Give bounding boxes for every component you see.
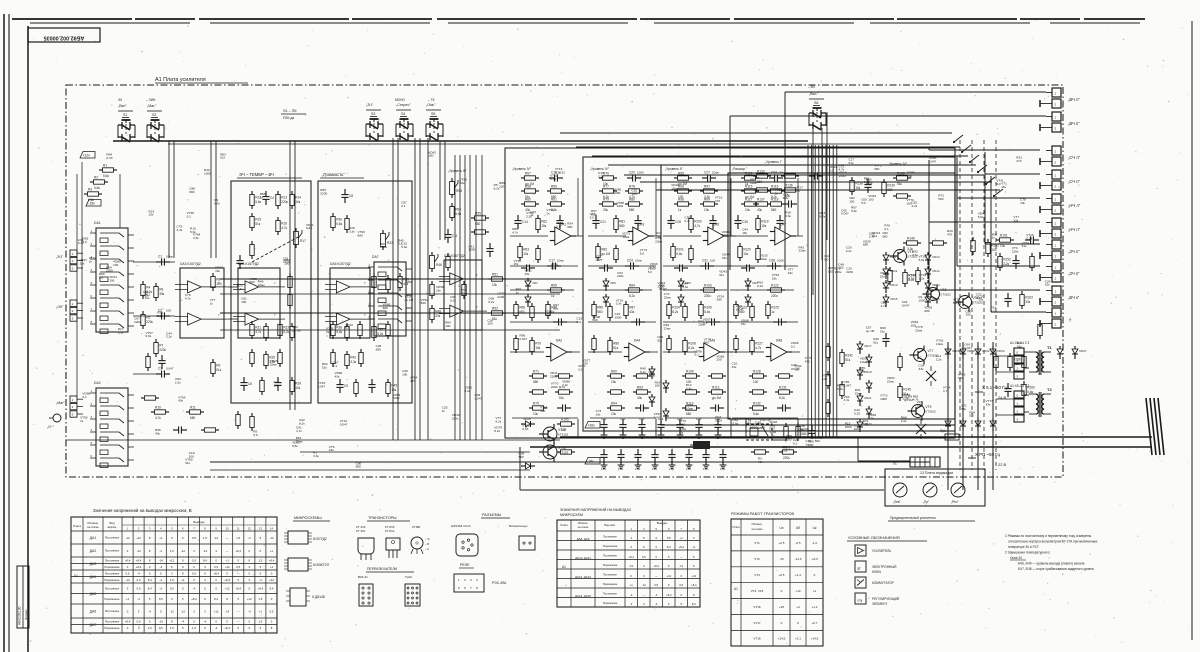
svg-text:R3: R3 xyxy=(88,187,92,191)
svg-text:5,0: 5,0 xyxy=(83,240,88,244)
svg-text:до 1М: до 1М xyxy=(292,329,301,333)
wire xfmr links xyxy=(996,352,1029,415)
svg-text:ЭЧ – ТЕМБР – БЧ: ЭЧ – ТЕМБР – БЧ xyxy=(239,172,274,177)
capacitor C23 xyxy=(599,264,613,271)
svg-text:+12: +12 xyxy=(214,609,219,613)
svg-text:+8,4: +8,4 xyxy=(269,559,275,563)
svg-text:R103: R103 xyxy=(704,283,712,287)
svg-text:-4: -4 xyxy=(259,578,262,582)
svg-text:15к: 15к xyxy=(535,346,541,350)
svg-text:VD10: VD10 xyxy=(932,255,940,259)
svg-text:ДА4: ДА4 xyxy=(90,575,97,579)
svg-text:22мк: 22мк xyxy=(664,326,672,330)
svg-text:К1: К1 xyxy=(748,418,752,422)
wires pins to selector xyxy=(730,92,1046,312)
capacitor C18 xyxy=(553,318,567,325)
svg-text:0,5: 0,5 xyxy=(654,583,658,587)
svg-text:5,6к: 5,6к xyxy=(94,186,100,190)
diode VD24 xyxy=(649,366,655,379)
svg-text:+4: +4 xyxy=(796,605,800,609)
svg-text:2 Завышении температурного:: 2 Завышении температурного: xyxy=(1005,551,1050,555)
svg-text:3,3к: 3,3к xyxy=(350,360,356,364)
diode VD18 xyxy=(866,354,872,367)
svg-text:C34: C34 xyxy=(771,171,777,175)
capacitor C27 xyxy=(702,171,719,182)
resistor R140 xyxy=(893,171,911,186)
svg-text:ДА1: ДА1 xyxy=(90,536,97,540)
svg-text:8,2к: 8,2к xyxy=(450,299,456,303)
ground xyxy=(686,462,693,468)
board outline A1 xyxy=(66,85,1063,477)
svg-text:560: 560 xyxy=(882,235,887,239)
resistor R146 xyxy=(888,267,892,285)
svg-text:АБ92.002.00: АБ92.002.00 xyxy=(18,606,22,625)
svg-text:R96: R96 xyxy=(678,184,684,188)
svg-text:5,6к: 5,6к xyxy=(851,209,857,213)
resistor R60 xyxy=(521,197,539,212)
svg-text:2200: 2200 xyxy=(839,174,846,178)
svg-text:3,3к: 3,3к xyxy=(869,235,875,239)
svg-text:0,1: 0,1 xyxy=(695,353,700,357)
svg-text:10к: 10к xyxy=(745,208,751,212)
rectifier verticals xyxy=(948,342,993,490)
channel 1 wires xyxy=(510,178,583,437)
capacitor C25 xyxy=(631,318,645,325)
capacitor C55 xyxy=(714,419,721,433)
selector dashed links xyxy=(960,140,996,470)
resistor R10 xyxy=(151,405,169,420)
svg-text:R98: R98 xyxy=(678,197,684,201)
svg-text:РАЗЪЕМЫ: РАЗЪЕМЫ xyxy=(482,513,502,517)
switch S4 xyxy=(396,103,413,141)
resistor R164 xyxy=(1038,321,1042,339)
capacitor C37 xyxy=(741,264,755,271)
svg-text:+8,4: +8,4 xyxy=(224,626,230,630)
svg-text:51к: 51к xyxy=(185,461,190,465)
resistor R18 xyxy=(250,241,254,259)
svg-text:Постоянное: Постоянное xyxy=(603,536,617,539)
resistor R30 xyxy=(331,213,343,231)
svg-text:15А: 15А xyxy=(635,467,640,471)
svg-text:100: 100 xyxy=(445,324,450,328)
svg-text:Uк: Uк xyxy=(813,526,817,530)
resistor R172 xyxy=(141,396,159,400)
diode VD9 xyxy=(883,252,896,265)
resistor R147 xyxy=(903,269,916,287)
svg-text:0,33: 0,33 xyxy=(550,177,556,181)
svg-text:0,047: 0,047 xyxy=(654,416,662,420)
svg-text:КЛЮЧ: КЛЮЧ xyxy=(872,570,881,574)
svg-text:+12: +12 xyxy=(247,597,252,601)
svg-text:+1: +1 xyxy=(126,597,130,601)
svg-text:+12v: +12v xyxy=(83,153,91,157)
svg-text:10мк: 10мк xyxy=(622,235,630,239)
capacitor C59 xyxy=(651,449,658,463)
svg-text:2200: 2200 xyxy=(320,192,327,196)
svg-text:0,047: 0,047 xyxy=(902,303,910,307)
ground xyxy=(658,432,665,438)
svg-text:10к: 10к xyxy=(1000,244,1006,248)
diode VD10 xyxy=(925,252,940,265)
svg-text:Обознач.: Обознач. xyxy=(752,522,763,526)
svg-text:„Уровень IV”: „Уровень IV” xyxy=(512,167,531,171)
svg-text:-12: -12 xyxy=(170,609,174,613)
svg-text:100: 100 xyxy=(583,362,588,366)
svg-text:„ЗЧ л”: „ЗЧ л” xyxy=(1068,249,1080,254)
svg-text:-4: -4 xyxy=(193,587,196,591)
capacitor C31 xyxy=(700,259,715,270)
resistor R161 xyxy=(971,237,975,255)
svg-text:51к: 51к xyxy=(849,161,854,165)
svg-text:15к: 15к xyxy=(741,322,746,326)
resistor R132 xyxy=(749,401,767,416)
capacitor C30 xyxy=(674,264,688,271)
svg-text:13 Плата индикации: 13 Плата индикации xyxy=(920,471,953,475)
svg-text:0,1: 0,1 xyxy=(401,204,406,208)
wire output rail A xyxy=(560,436,1152,438)
svg-text:470: 470 xyxy=(1016,159,1021,163)
resistor R110 xyxy=(708,374,726,378)
svg-text:R117: R117 xyxy=(745,197,753,201)
resistor R74 xyxy=(555,385,573,400)
op-amp IC DA3 xyxy=(175,262,229,338)
svg-text:-14: -14 xyxy=(159,620,163,624)
capacitor C7 xyxy=(274,377,281,391)
diode VD7 xyxy=(745,278,758,291)
svg-text:15к: 15к xyxy=(215,269,220,273)
svg-text:+8,4: +8,4 xyxy=(125,559,131,563)
resistor R89 xyxy=(608,337,619,355)
svg-text:8,2к: 8,2к xyxy=(820,215,826,219)
svg-text:10мк: 10мк xyxy=(557,259,564,263)
resistor R171 xyxy=(146,353,150,371)
svg-text:10к: 10к xyxy=(523,252,529,256)
svg-text:5,6к: 5,6к xyxy=(704,310,710,314)
svg-text:100: 100 xyxy=(428,154,433,158)
svg-text:51к: 51к xyxy=(576,320,581,324)
ground xyxy=(703,462,710,468)
svg-text:КТ3102: КТ3102 xyxy=(558,433,569,437)
svg-text:10к: 10к xyxy=(596,412,601,416)
svg-text:470: 470 xyxy=(715,199,720,203)
svg-text:R79: R79 xyxy=(603,197,609,201)
svg-text:R122: R122 xyxy=(771,283,779,287)
svg-text:К190КТ2П: К190КТ2П xyxy=(313,563,330,567)
diode VD21 xyxy=(857,393,872,406)
resistor R173 xyxy=(201,428,219,432)
svg-text:Выводы: Выводы xyxy=(657,521,667,525)
svg-text:560: 560 xyxy=(757,180,763,184)
resistor R175 xyxy=(250,413,254,431)
svg-text:+2,1: +2,1 xyxy=(795,637,801,641)
svg-text:5,0: 5,0 xyxy=(861,201,866,205)
svg-text:Постоянное: Постоянное xyxy=(105,549,120,553)
svg-text:10к: 10к xyxy=(492,283,498,287)
resistor R82 xyxy=(596,243,611,261)
indicator „Реч” xyxy=(951,483,965,504)
diode VD29 xyxy=(945,418,951,431)
resistor R150 xyxy=(929,241,947,245)
resistor R12 xyxy=(250,191,262,209)
svg-text:Плата: Плата xyxy=(560,523,568,527)
svg-text:51к: 51к xyxy=(873,340,878,344)
resistor R168 xyxy=(796,423,809,441)
capacitor C45 xyxy=(1025,236,1039,243)
capacitor C24 xyxy=(625,259,642,270)
svg-text:„Расшир.”: „Расшир.” xyxy=(732,167,747,171)
svg-text:560: 560 xyxy=(214,201,219,205)
svg-text:33к: 33к xyxy=(1013,218,1018,222)
svg-text:10к: 10к xyxy=(704,208,710,212)
net label -15v xyxy=(86,200,101,207)
resistor R51 xyxy=(488,272,506,287)
resistor R31 xyxy=(345,215,349,233)
svg-text:100: 100 xyxy=(822,377,827,381)
svg-text:+8,4: +8,4 xyxy=(691,583,697,587)
capacitor C42 xyxy=(783,200,797,207)
diode VD2 xyxy=(525,294,531,307)
resistor R109 xyxy=(682,369,700,384)
svg-text:до 1М: до 1М xyxy=(712,396,721,400)
diode VD16 xyxy=(925,294,940,307)
svg-text:22мк: 22мк xyxy=(915,329,923,333)
svg-text:Постоянное: Постоянное xyxy=(105,572,120,576)
ground xyxy=(696,432,703,438)
svg-text:43к: 43к xyxy=(637,396,643,400)
svg-text:10мк: 10мк xyxy=(860,360,868,364)
svg-text:43к: 43к xyxy=(178,399,183,403)
resistor R22 xyxy=(264,323,268,341)
svg-text:Выводы: Выводы xyxy=(193,520,204,524)
ground xyxy=(715,432,722,438)
svg-text:R94: R94 xyxy=(611,401,617,405)
svg-text:VD15: VD15 xyxy=(890,297,898,301)
svg-text:8,2к: 8,2к xyxy=(782,449,788,453)
svg-text:100: 100 xyxy=(965,313,970,317)
resistor R42 xyxy=(345,351,357,369)
capacitor C46 xyxy=(1012,255,1019,269)
diode VD30 xyxy=(960,346,975,359)
resistor R35 xyxy=(398,273,409,291)
svg-text:22мк: 22мк xyxy=(595,257,603,261)
svg-text:„Громкость”: „Громкость” xyxy=(322,172,345,177)
svg-text:8,4: 8,4 xyxy=(148,578,152,582)
svg-text:8,4: 8,4 xyxy=(667,545,671,549)
svg-text:22мк: 22мк xyxy=(270,363,278,367)
resistor R116 xyxy=(767,184,785,199)
resistor R34 xyxy=(386,275,390,293)
svg-text:C1: C1 xyxy=(158,255,162,259)
svg-text:10мк: 10мк xyxy=(797,428,805,432)
diode ladder 2 xyxy=(649,366,669,421)
resistor R71 xyxy=(529,369,547,384)
svg-text:33к: 33к xyxy=(603,208,609,212)
svg-text:2200: 2200 xyxy=(658,284,665,288)
svg-text:0,047: 0,047 xyxy=(844,384,852,388)
svg-text:-12: -12 xyxy=(181,609,185,613)
diode ladder column xyxy=(857,341,872,432)
svg-text:43к: 43к xyxy=(1017,344,1022,348)
svg-text:0,5: 0,5 xyxy=(667,536,671,540)
svg-text:VD13: VD13 xyxy=(890,283,898,287)
svg-text:VT3: VT3 xyxy=(941,288,947,292)
svg-text:-4: -4 xyxy=(248,536,251,540)
svg-text:680: 680 xyxy=(356,465,361,469)
diode VD5 xyxy=(678,278,691,291)
op-amp DA1 xyxy=(550,223,576,246)
svg-text:„ЗЧ”: „ЗЧ” xyxy=(56,255,64,259)
svg-text:+12: +12 xyxy=(136,536,141,540)
svg-text:VT1: VT1 xyxy=(754,541,760,545)
wire to socket xyxy=(858,437,910,461)
svg-text:3,3к: 3,3к xyxy=(616,302,622,306)
svg-text:51к: 51к xyxy=(953,301,958,305)
svg-text:10к: 10к xyxy=(611,412,617,416)
svg-text:22мк: 22мк xyxy=(887,379,895,383)
svg-text:S1 – S5: S1 – S5 xyxy=(283,109,297,113)
svg-text:51к: 51к xyxy=(880,330,885,334)
svg-text:КОММУТАТОР: КОММУТАТОР xyxy=(872,581,894,585)
svg-text:51к: 51к xyxy=(255,222,261,226)
svg-text:VT17: VT17 xyxy=(753,621,761,625)
resistor R160 xyxy=(1022,381,1035,399)
block tone control xyxy=(231,172,311,403)
svg-text:DA2: DA2 xyxy=(556,339,562,343)
resistor R126 xyxy=(734,335,738,353)
resistor R55 xyxy=(471,211,489,226)
svg-text:ЗНАЧЕНИЯ НАПРЯЖЕНИЙ НА ВЫВО: ЗНАЧЕНИЯ НАПРЯЖЕНИЙ НА ВЫВОДАХ xyxy=(560,508,632,512)
svg-text:100: 100 xyxy=(166,309,171,313)
svg-text:– ЛИН.: – ЛИН. xyxy=(146,98,156,102)
svg-text:S5: S5 xyxy=(431,112,435,116)
svg-text:Плата: Плата xyxy=(73,524,81,528)
resistor R83 xyxy=(614,245,618,263)
svg-text:-4: -4 xyxy=(204,620,207,624)
svg-text:560: 560 xyxy=(519,455,524,459)
wire bottom return 3 xyxy=(300,451,530,453)
svg-text:0,047: 0,047 xyxy=(964,346,972,350)
svg-text:51к: 51к xyxy=(326,330,331,334)
svg-text:33к: 33к xyxy=(919,367,924,371)
svg-text:+14,5: +14,5 xyxy=(778,637,786,641)
svg-text:VD38: VD38 xyxy=(523,417,531,421)
svg-text:10мк: 10мк xyxy=(635,259,642,263)
capacitor C50 xyxy=(619,419,626,433)
svg-text:-15: -15 xyxy=(779,557,784,561)
svg-text:15А: 15А xyxy=(652,467,657,471)
svg-text:ЗГ: ЗГ xyxy=(857,567,861,571)
svg-text:4,7к: 4,7к xyxy=(943,389,949,393)
svg-text:Постоянное: Постоянное xyxy=(603,593,617,596)
resistor R122 xyxy=(767,283,785,298)
svg-text:ШР2-ВЗ-Уз/об: ШР2-ВЗ-Уз/об xyxy=(451,524,471,528)
svg-text:R17: R17 xyxy=(300,239,306,243)
svg-text:5,6к: 5,6к xyxy=(919,258,925,262)
svg-text:R32: R32 xyxy=(387,241,393,245)
svg-text:4,7к: 4,7к xyxy=(296,429,302,433)
svg-text:1,5: 1,5 xyxy=(192,626,196,630)
svg-text:100: 100 xyxy=(907,202,912,206)
svg-text:+8,4: +8,4 xyxy=(136,565,142,569)
svg-text:0,1: 0,1 xyxy=(685,219,690,223)
svg-text:+1: +1 xyxy=(181,578,185,582)
svg-text:+8,4: +8,4 xyxy=(666,593,672,597)
resistor R101 xyxy=(671,243,684,261)
svg-text:1000: 1000 xyxy=(468,248,475,252)
svg-text:220к: 220к xyxy=(281,200,288,204)
svg-text:10к: 10к xyxy=(1020,201,1025,205)
table transistor modes xyxy=(731,512,823,646)
resistor R23 xyxy=(278,321,290,339)
svg-text:33к: 33к xyxy=(732,365,737,369)
svg-text:С46: С46 xyxy=(696,417,702,421)
svg-text:ДА8, ДА9: ДА8, ДА9 xyxy=(577,537,590,541)
svg-text:VD11: VD11 xyxy=(890,269,898,273)
svg-text:15к: 15к xyxy=(149,213,154,217)
resistor R124 xyxy=(750,303,754,321)
svg-text:-12: -12 xyxy=(181,549,185,553)
svg-text:220к: 220к xyxy=(854,427,861,431)
svg-text:1,5: 1,5 xyxy=(258,559,262,563)
svg-text:8,2к: 8,2к xyxy=(465,389,471,393)
capacitor C17 xyxy=(547,259,564,270)
svg-text:560: 560 xyxy=(786,438,791,442)
svg-text:8,2к: 8,2к xyxy=(757,284,763,288)
svg-text:на схеме: на схеме xyxy=(87,525,99,529)
svg-text:+14,5: +14,5 xyxy=(811,637,819,641)
svg-text:15А: 15А xyxy=(703,467,708,471)
svg-text:—: — xyxy=(237,609,240,613)
svg-text:0,33: 0,33 xyxy=(908,276,914,280)
resistor R139 xyxy=(882,179,895,197)
svg-text:+1: +1 xyxy=(159,536,163,540)
resistor R91 xyxy=(633,374,651,378)
capacitor C48 xyxy=(1004,293,1011,307)
svg-text:DA5: DA5 xyxy=(713,223,719,227)
svg-text:560: 560 xyxy=(771,208,777,212)
svg-text:ДА2: ДА2 xyxy=(90,549,97,553)
diode VD8 xyxy=(745,294,751,307)
resistor R112 xyxy=(708,385,726,400)
svg-text:100: 100 xyxy=(561,428,567,432)
svg-text:5,6к: 5,6к xyxy=(863,422,869,426)
relay K1 xyxy=(746,418,772,440)
svg-text:– ТК: – ТК xyxy=(428,98,435,102)
svg-text:1 Режимы по постоянному и пер: 1 Режимы по постоянному и переменному то… xyxy=(1005,534,1092,538)
scattered reference designators xyxy=(78,150,1051,468)
svg-text:Пр1: Пр1 xyxy=(940,429,946,433)
svg-text:ТРАНЗИСТОРЫ: ТРАНЗИСТОРЫ xyxy=(368,516,397,520)
svg-text:Окна 34: Окна 34 xyxy=(1010,556,1022,560)
svg-text:680: 680 xyxy=(519,310,525,314)
svg-text:220к: 220к xyxy=(704,294,711,298)
svg-text:1000: 1000 xyxy=(613,191,620,195)
svg-text:22 В: 22 В xyxy=(998,462,1007,467)
capacitor C15 xyxy=(556,215,563,229)
svg-text:1000: 1000 xyxy=(648,373,655,377)
svg-text:8,2к: 8,2к xyxy=(629,294,635,298)
svg-text:„ОК”: „ОК” xyxy=(56,305,64,309)
svg-text:15к: 15к xyxy=(742,231,747,235)
svg-text:3,3к: 3,3к xyxy=(844,398,850,402)
diode VD11 xyxy=(883,266,898,279)
connector pins „НЧ п” xyxy=(1040,218,1081,238)
svg-text:+12: +12 xyxy=(225,587,230,591)
resistor R81 xyxy=(614,215,625,233)
svg-text:680: 680 xyxy=(383,306,388,310)
svg-text:А1: А1 xyxy=(734,587,738,591)
capacitor C47 xyxy=(1004,383,1011,397)
